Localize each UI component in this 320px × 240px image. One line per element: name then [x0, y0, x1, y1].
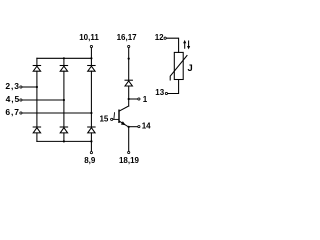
emitter lead with arrow — [119, 121, 129, 127]
diode D4 (bottom, column 1) — [33, 127, 40, 133]
wire riser to terminal 10,11 — [90, 48, 92, 58]
junction dot 4,5/column2 — [63, 99, 65, 101]
varistor J body — [174, 52, 183, 79]
wire branch to pin 14 — [129, 126, 138, 128]
svg-text:10,11: 10,11 — [79, 33, 99, 42]
wire drop to terminal 8,9 — [90, 141, 92, 151]
wire input 2,3 — [22, 86, 37, 88]
svg-text:8,9: 8,9 — [84, 156, 96, 165]
wire column 1 — [36, 58, 38, 65]
svg-text:J: J — [188, 62, 193, 73]
junction dot middle column — [128, 58, 130, 60]
svg-text:6,7: 6,7 — [5, 107, 20, 117]
svg-text:13: 13 — [155, 88, 164, 97]
svg-text:18,19: 18,19 — [119, 156, 140, 165]
terminal circle 10,11 — [90, 45, 92, 47]
terminal circle 6,7 — [20, 112, 22, 114]
diode D1 (top, column 1) — [33, 66, 40, 72]
terminal circle 1 — [138, 98, 140, 100]
wire bottom bus (left bridge) — [37, 140, 92, 142]
junction dot pin 14 branch — [128, 126, 130, 128]
terminal circle 13 — [165, 92, 167, 94]
svg-text:15: 15 — [99, 114, 108, 123]
diode D2 (top, column 2) — [60, 66, 67, 72]
wire middle column below diode — [128, 86, 130, 106]
terminal circle 14 — [138, 126, 140, 128]
wire column 2 — [63, 58, 65, 65]
junction dot pin 1 branch — [128, 98, 130, 100]
terminal circle 4,5 — [20, 99, 22, 101]
junction dot column2/top bus — [63, 57, 65, 59]
terminal circle 12 — [164, 37, 166, 39]
wire column 3 — [90, 58, 92, 65]
terminal circle 8,9 — [90, 152, 92, 154]
svg-text:1: 1 — [143, 95, 148, 104]
terminal circle 15 — [111, 118, 113, 120]
diode D7 (middle column) — [125, 80, 132, 86]
svg-text:2,3: 2,3 — [5, 81, 20, 91]
terminal circle 16,17 — [128, 45, 130, 47]
terminal circle 2,3 — [20, 86, 22, 88]
varistor J diagonal — [170, 56, 187, 81]
arrow down (voltage) — [187, 41, 190, 49]
base bar — [118, 110, 120, 122]
terminal circle 18,19 — [128, 151, 130, 153]
wire input 4,5 — [22, 99, 64, 101]
diode D5 (bottom, column 2) — [60, 127, 67, 133]
collector lead — [119, 106, 129, 111]
diode D6 (bottom, column 3) — [88, 127, 95, 133]
wire varistor to terminal 13 — [168, 80, 179, 94]
svg-text:12: 12 — [155, 33, 164, 42]
junction dot column2/bottom bus — [63, 140, 65, 142]
svg-text:14: 14 — [142, 122, 151, 131]
wire terminal 12 to varistor — [166, 38, 178, 52]
arrow up (voltage) — [183, 40, 186, 48]
wire emitter down to terminal 18,19 — [128, 127, 130, 151]
wire top bus (left bridge) — [37, 57, 92, 59]
diode D3 (top, column 3) — [88, 66, 95, 72]
junction dot column3/bottom bus — [90, 140, 92, 142]
transistor Q1 — [113, 106, 129, 127]
wire middle column upper — [128, 48, 130, 80]
junction dot 2,3/column1 — [36, 86, 38, 88]
wire branch to pin 1 — [129, 98, 138, 100]
base stem — [113, 113, 116, 119]
junction dot 6,7/column3 — [90, 112, 92, 114]
junction dot column3/top bus — [90, 57, 92, 59]
svg-text:4,5: 4,5 — [6, 94, 21, 104]
svg-text:16,17: 16,17 — [117, 33, 138, 42]
base lead — [113, 118, 119, 120]
wire input 6,7 — [22, 112, 91, 114]
